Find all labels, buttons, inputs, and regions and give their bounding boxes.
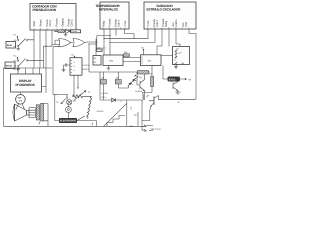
svg-text:4: 4: [109, 26, 110, 29]
svg-text:ESTIMULO OSCILADOR: ESTIMULO OSCILADOR: [147, 7, 182, 11]
+5v supply 4: [141, 47, 144, 55]
wire right lower: [158, 100, 196, 105]
svg-text:220 V A.C.: 220 V A.C.: [151, 128, 162, 131]
svg-text:Puesta: Puesta: [56, 18, 59, 27]
svg-text:3: 3: [125, 26, 126, 29]
wire pot feeds: [127, 100, 142, 130]
resistor R8 dark: [138, 71, 149, 75]
label 15K: [130, 106, 133, 111]
wire U1 pin columns: [34, 30, 70, 68]
svg-text:1N4004: 1N4004: [101, 92, 108, 95]
svg-text:Con 2: Con 2: [71, 19, 74, 26]
svg-text:470Ω: 470Ω: [169, 78, 176, 81]
diode D2: [100, 98, 142, 102]
svg-text:Nº DISPAROS: Nº DISPAROS: [16, 83, 35, 87]
inductor L2: [142, 93, 144, 101]
svg-text:+B: +B: [188, 78, 191, 81]
svg-text:100K: 100K: [129, 125, 134, 128]
switch S3: [56, 99, 65, 104]
or-gate U9A: [55, 39, 73, 47]
svg-text:Display: Display: [62, 17, 65, 26]
+5v supply 2: [13, 55, 18, 61]
display block DSP1: [11, 74, 42, 92]
label clock reset: [83, 64, 90, 71]
buzzer BZ1: [16, 92, 26, 110]
wire U11 outputs: [72, 75, 78, 96]
svg-text:Prof: Prof: [185, 22, 188, 27]
block U3 duracion estimulo oscilador: [144, 2, 196, 29]
ground G2: [16, 67, 20, 71]
resistor R5 10K: [115, 77, 121, 84]
svg-text:T out: T out: [124, 21, 127, 27]
ground G5: [174, 65, 178, 69]
+5v supply 5: [139, 74, 145, 80]
regulator 470 label: [168, 77, 181, 82]
svg-text:+5v: +5v: [13, 34, 16, 37]
wire mid vertical drops: [53, 94, 68, 121]
svg-text:7: 7: [116, 26, 117, 29]
svg-text:4060: 4060: [109, 59, 113, 62]
svg-text:+5v: +5v: [13, 55, 16, 58]
svg-text:3: 3: [175, 26, 176, 29]
svg-text:7: 7: [188, 26, 189, 29]
svg-text:INTERVALOS: INTERVALOS: [99, 7, 118, 11]
svg-text:Con 1: Con 1: [49, 19, 52, 26]
svg-text:12: 12: [88, 90, 90, 93]
ic U4: [93, 56, 101, 66]
led D1: [128, 75, 138, 86]
ground G6: [175, 90, 180, 94]
rheostat R3: [72, 90, 91, 100]
svg-text:Ch: Ch: [56, 101, 58, 104]
capacitor C1: [64, 64, 71, 67]
svg-text:5: 5: [74, 69, 75, 72]
wire right upper routing: [161, 55, 173, 57]
terminal mains 2: [142, 129, 153, 131]
svg-text:Start: Start: [7, 44, 12, 47]
inverter U8A: [66, 29, 71, 33]
resistor R4 10K: [101, 77, 107, 84]
ground G4: [107, 66, 111, 71]
svg-text:RESET: RESET: [83, 68, 90, 71]
label 500K: [96, 46, 106, 51]
transistor Q4: [142, 93, 158, 120]
svg-text:ELECTRODOS: ELECTRODOS: [60, 120, 76, 123]
ic U11: [70, 58, 82, 75]
svg-text:+5v: +5v: [139, 76, 142, 79]
svg-text:Start: Start: [33, 21, 36, 27]
svg-text:Con 2: Con 2: [156, 19, 159, 26]
arrow +B: [180, 78, 191, 81]
label box pausa: [71, 30, 81, 33]
svg-text:6: 6: [175, 58, 176, 61]
wire U2 pins down: [97, 29, 134, 42]
ic U6: [141, 55, 162, 66]
svg-text:Reset: Reset: [40, 19, 43, 26]
or-gate U9B: [73, 39, 97, 47]
pushbutton P2: [5, 62, 15, 69]
wire U3 pins down: [88, 29, 196, 99]
block U1 contador con preseleccion: [30, 4, 76, 31]
svg-text:5: 5: [47, 27, 48, 30]
svg-text:5: 5: [74, 61, 75, 64]
terminal A2: [92, 123, 94, 127]
switch S1: [14, 39, 35, 48]
pushbutton P1: [6, 42, 16, 49]
svg-text:Puesta: Puesta: [109, 18, 112, 27]
resistance wire coil: [77, 96, 97, 126]
svg-text:Ancho: Ancho: [175, 19, 178, 27]
resistor R2 50K: [124, 51, 130, 57]
svg-text:2: 2: [103, 26, 104, 29]
ground G3: [64, 34, 67, 37]
wire gate feeds: [52, 40, 59, 94]
svg-text:2N3055: 2N3055: [135, 90, 142, 93]
svg-text:T ent: T ent: [147, 21, 150, 27]
ground G8: [62, 65, 66, 72]
label 2M: [134, 114, 137, 117]
transistor Q1: [135, 72, 144, 93]
svg-text:+5v: +5v: [71, 54, 74, 57]
svg-text:4: 4: [161, 26, 162, 29]
label mains: [151, 128, 162, 131]
label diode values: [101, 92, 108, 99]
label 100K: [129, 125, 134, 128]
+5v supply 1: [13, 34, 18, 40]
svg-text:250 V: 250 V: [101, 96, 107, 99]
speaker LS1: [13, 104, 29, 121]
block U2 temporizador intervalos: [96, 2, 130, 29]
wire display feeds: [3, 46, 52, 126]
svg-text:1: 1: [120, 26, 121, 29]
svg-text:1: 1: [56, 27, 57, 30]
svg-text:1: 1: [182, 26, 183, 29]
svg-text:Reloj: Reloj: [103, 20, 106, 26]
transistor Q3: [173, 82, 178, 91]
svg-text:6: 6: [154, 26, 155, 29]
label pot: [97, 110, 105, 113]
terminal A1: [38, 122, 40, 126]
svg-text:Pausa: Pausa: [72, 30, 78, 33]
transformer T1: [29, 103, 48, 126]
terminal mains 1: [143, 125, 153, 127]
+5v supply U11: [71, 54, 75, 58]
wire U5 to U6: [123, 58, 141, 62]
svg-text:2M: 2M: [134, 114, 137, 117]
resistor R7 10K: [149, 72, 154, 86]
potentiometer P1: [104, 100, 127, 127]
box U10 output stage: [173, 47, 190, 66]
ic U5: [103, 55, 123, 66]
svg-text:5: 5: [74, 65, 75, 68]
wire right mid routing: [143, 66, 174, 93]
wire bottom bus: [3, 125, 146, 127]
lamp L1: [67, 99, 77, 104]
svg-text:Reset: Reset: [6, 65, 12, 68]
svg-text:+5v: +5v: [13, 68, 16, 71]
wire mid ic routing: [89, 36, 110, 72]
svg-text:PRESELECCION: PRESELECCION: [33, 8, 57, 12]
svg-text:Reloj: Reloj: [165, 20, 168, 26]
svg-text:40M: 40M: [148, 60, 152, 63]
wire lower mid routing: [89, 72, 150, 100]
switch S2: [14, 59, 44, 68]
ground G1: [16, 47, 20, 51]
svg-text:Con 2: Con 2: [118, 19, 121, 26]
svg-text:2: 2: [147, 26, 148, 29]
svg-text:3: 3: [40, 27, 41, 30]
resistor R1 10K: [54, 30, 66, 33]
svg-text:5: 5: [168, 26, 169, 29]
svg-text:2: 2: [34, 27, 35, 30]
label electrodos: [59, 118, 77, 123]
svg-text:270/10K: 270/10K: [97, 110, 105, 113]
motor M1: [66, 105, 72, 118]
